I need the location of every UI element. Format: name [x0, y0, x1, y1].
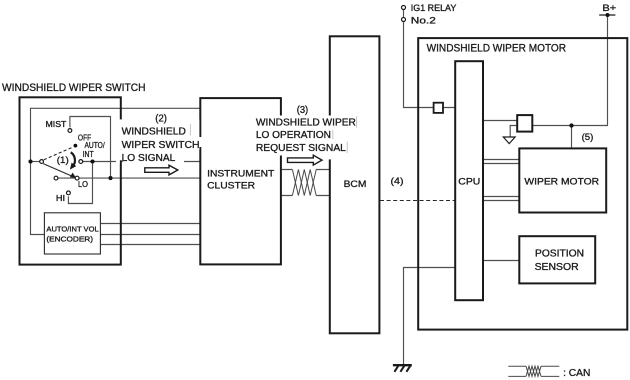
wire pair: CPU to wiper motor lower	[483, 197, 519, 201]
node: MIST/LO junction dot	[108, 176, 112, 180]
terminal: IG1 relay circle 1	[402, 6, 406, 10]
label background (3) line 1	[254, 116, 358, 130]
wire: dashed OFF/AUTO position line	[44, 147, 73, 160]
wire: INT contact to instrument cluster	[83, 161, 201, 163]
twisted pair symbol between instrument cluster and BCM	[292, 170, 316, 196]
rotate arc arrow (1)	[71, 152, 75, 165]
terminal: IG1 relay circle 2	[402, 18, 406, 22]
wire: junction down to wiper motor	[571, 126, 573, 149]
wiper motor box	[519, 148, 606, 212]
terminal: B+ bar	[599, 14, 615, 16]
svg-text:CPU: CPU	[458, 177, 480, 188]
ghost tick after LO OPERATION	[332, 130, 334, 139]
svg-text:HI: HI	[56, 194, 65, 203]
svg-text:WIPER MOTOR: WIPER MOTOR	[524, 177, 599, 188]
wire: B+ feed down to junction and connector	[532, 15, 607, 126]
svg-text:(2): (2)	[155, 113, 167, 124]
wire: encoder output 3	[100, 244, 200, 246]
svg-text:(ENCODER): (ENCODER)	[46, 236, 93, 243]
svg-text:LO: LO	[78, 180, 88, 189]
ghost tick after WINDSHIELD WIPER	[356, 116, 358, 128]
svg-text:WINDSHIELD WIPER: WINDSHIELD WIPER	[256, 117, 356, 128]
wire: INT junction down and to HI contact	[68, 162, 92, 204]
label background (2) line 3	[119, 150, 184, 161]
wire: IG1 relay No.2 feed to CPU	[404, 10, 456, 108]
label background (3) lower BCM edge gap	[327, 156, 335, 160]
svg-text:AUTO/INT VOL: AUTO/INT VOL	[46, 227, 98, 234]
wire: branch down to out-arrow	[510, 126, 517, 137]
wire: MIST contact up over and down to LO wire	[70, 117, 111, 179]
node: B+ terminal dot	[606, 13, 610, 17]
svg-text:(3): (3)	[297, 105, 309, 116]
svg-text:CLUSTER: CLUSTER	[207, 181, 255, 192]
svg-text:(4): (4)	[391, 176, 404, 187]
windshield wiper switch box	[20, 97, 121, 264]
label background (2) line 1-2	[119, 119, 200, 149]
svg-text:IG1 RELAY: IG1 RELAY	[411, 3, 457, 13]
svg-text:B+: B+	[602, 3, 616, 14]
svg-text:INSTRUMENT: INSTRUMENT	[207, 168, 274, 179]
svg-text:: CAN: : CAN	[563, 368, 590, 379]
svg-text:REQUEST SIGNAL: REQUEST SIGNAL	[256, 143, 346, 154]
wire: LO contact to instrument cluster	[79, 177, 200, 179]
svg-text:AUTO/: AUTO/	[85, 141, 106, 150]
svg-text:No.2: No.2	[411, 16, 436, 26]
ghost tick after WINDSHIELD	[189, 124, 191, 136]
svg-text:SENSOR: SENSOR	[535, 262, 579, 273]
position sensor box	[519, 236, 595, 283]
contact: LO left	[54, 176, 58, 180]
wire: switch arm to LO	[43, 164, 72, 177]
ghost tick after REQUEST SIGNAL	[346, 142, 348, 154]
svg-text:BCM: BCM	[344, 179, 367, 190]
connector square: B+ feed	[517, 115, 532, 132]
label background (2) over INT wire	[123, 160, 184, 163]
svg-text:WINDSHIELD: WINDSHIELD	[122, 126, 186, 137]
node: pivot contact dot	[28, 159, 32, 163]
wire: dashed BCM to CPU (4)	[380, 200, 455, 202]
wire: CAN low instrument cluster to BCM	[281, 195, 330, 197]
wire: CPU ground lead	[404, 268, 456, 365]
label background (2) cluster edge gap	[199, 137, 203, 147]
contact: INT	[79, 160, 83, 164]
wire: switch common (pivot) to instrument cluster top wire	[31, 108, 201, 234]
instrument cluster box	[200, 98, 281, 264]
BCM box	[330, 36, 380, 333]
ground symbol	[393, 365, 412, 372]
svg-text:POSITION: POSITION	[535, 249, 584, 260]
wire: CPU to B+ connector	[483, 120, 517, 122]
out arrow triangle (open, down)	[503, 137, 515, 144]
svg-text:LO SIGNAL: LO SIGNAL	[122, 153, 176, 164]
signal arrow (3)	[288, 155, 323, 165]
switch arm arrowhead	[70, 173, 76, 178]
svg-text:LO OPERATION: LO OPERATION	[256, 130, 331, 141]
connector square: IG1 feed	[434, 103, 443, 113]
windshield wiper motor box	[418, 38, 627, 330]
contact: LO	[75, 176, 79, 180]
CPU box	[455, 61, 483, 300]
wire: pivot dot to pivot contact	[31, 161, 40, 163]
node: OFF/AUTO position dot	[74, 144, 78, 148]
svg-text:WINDSHIELD WIPER SWITCH: WINDSHIELD WIPER SWITCH	[2, 82, 146, 94]
wire: encoder output 2	[100, 234, 200, 236]
svg-text:(1): (1)	[57, 155, 69, 166]
contact: pivot open circle	[40, 160, 44, 164]
wire: LO row between contacts	[58, 177, 75, 179]
svg-text:MIST: MIST	[46, 120, 67, 129]
contact: HI	[67, 191, 71, 195]
svg-text:WIPER SWITCH: WIPER SWITCH	[122, 140, 200, 151]
svg-text:WINDSHIELD WIPER MOTOR: WINDSHIELD WIPER MOTOR	[427, 42, 567, 54]
label background (3) line 3	[254, 142, 349, 156]
arc arrowhead	[70, 163, 76, 170]
label background (3) line 2	[254, 129, 335, 142]
contact: MIST	[68, 129, 72, 133]
svg-text:(5): (5)	[582, 132, 594, 143]
wire: CPU to position sensor	[483, 260, 519, 262]
wire: encoder output 1	[100, 223, 200, 225]
node: INT junction dot	[90, 159, 94, 163]
wire: CAN high instrument cluster to BCM	[281, 169, 330, 171]
signal arrow (2)	[145, 165, 178, 175]
legend: CAN twisted pair symbol	[508, 366, 559, 376]
svg-text:INT: INT	[83, 150, 94, 159]
node: junction dot near (5)	[569, 123, 573, 127]
wire pair: CPU to wiper motor upper	[483, 160, 519, 164]
auto/int vol encoder box	[44, 213, 100, 254]
